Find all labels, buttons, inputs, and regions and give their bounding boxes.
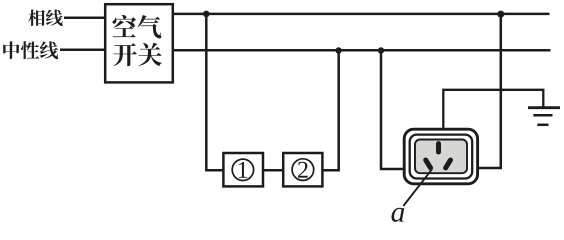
node C junction on neutral bus bbox=[378, 47, 384, 53]
label 开关 bbox=[113, 43, 162, 66]
label 中性线 (neutral wire) bbox=[3, 41, 58, 59]
label 相线 (live/phase wire) bbox=[28, 9, 63, 26]
wire earth from socket to ground bbox=[443, 90, 543, 130]
wire neutral branch to socket left bbox=[381, 51, 405, 170]
wire neutral bottom bus bbox=[173, 49, 551, 52]
node D junction on live bus bbox=[497, 11, 504, 18]
wire live branch to socket right bbox=[478, 14, 500, 168]
wire live branch to lamp 1 bbox=[206, 14, 223, 170]
label 空气 bbox=[113, 15, 162, 38]
lamp box L2 (②) bbox=[283, 153, 322, 186]
breaker box U1 空气开关 (air switch) bbox=[105, 4, 173, 82]
lamp box L1 (①) bbox=[223, 153, 263, 186]
wire live stub bbox=[64, 16, 106, 19]
node B junction on neutral bus bbox=[335, 47, 341, 53]
label a bbox=[391, 208, 404, 222]
ground symbol bbox=[528, 108, 560, 125]
socket neutral slot (left) bbox=[426, 160, 431, 168]
socket live slot (right) bbox=[446, 160, 451, 168]
socket earth slot (top) bbox=[436, 144, 441, 152]
leader line to label a bbox=[403, 169, 432, 206]
wire between lamp 1 and lamp 2 bbox=[263, 169, 283, 172]
wire lamp 2 to node B bbox=[322, 51, 338, 171]
wire neutral stub bbox=[60, 49, 106, 52]
socket X1 (three-pin outlet) bbox=[404, 129, 477, 184]
node A junction on live bus bbox=[203, 11, 210, 18]
wire live top bus bbox=[173, 13, 550, 16]
